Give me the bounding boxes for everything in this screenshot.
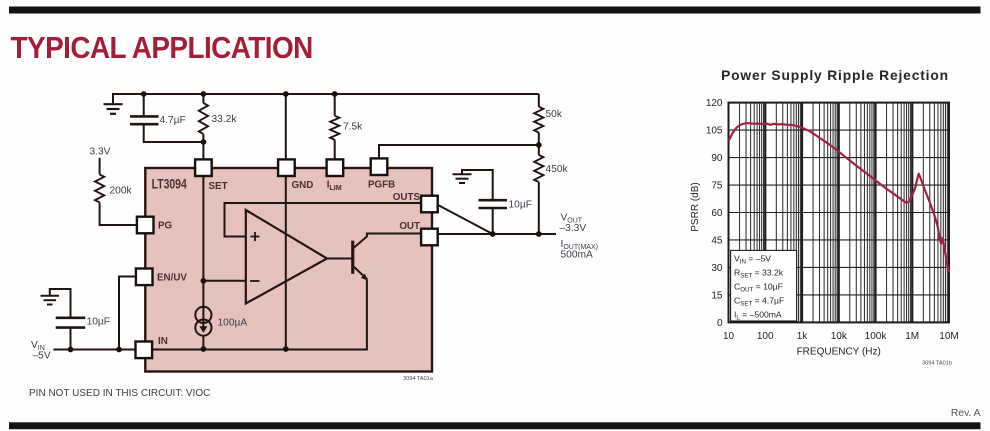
svg-text:SET: SET (209, 181, 228, 192)
svg-text:IN: IN (158, 336, 168, 347)
svg-text:PG: PG (158, 221, 173, 232)
svg-text:15: 15 (711, 290, 723, 301)
svg-text:OUT: OUT (399, 221, 420, 232)
svg-text:10µF: 10µF (87, 317, 110, 328)
svg-text:3094 TA01a: 3094 TA01a (403, 376, 434, 382)
svg-text:10k: 10k (831, 331, 848, 342)
svg-text:90: 90 (711, 153, 723, 164)
svg-text:200k: 200k (110, 186, 133, 197)
svg-text:45: 45 (711, 236, 723, 247)
svg-text:50k: 50k (546, 109, 563, 120)
svg-text:10M: 10M (939, 331, 958, 342)
svg-text:PGFB: PGFB (368, 180, 395, 191)
svg-text:Power Supply Ripple Rejection: Power Supply Ripple Rejection (721, 68, 949, 83)
svg-text:7.5k: 7.5k (343, 122, 363, 133)
svg-text:30: 30 (711, 263, 723, 274)
svg-text:–3.3V: –3.3V (560, 223, 587, 234)
svg-text:100: 100 (757, 331, 774, 342)
svg-text:FREQUENCY (Hz): FREQUENCY (Hz) (797, 347, 881, 358)
svg-text:GND: GND (292, 180, 314, 191)
svg-text:3094 TA01b: 3094 TA01b (922, 361, 952, 367)
svg-text:EN/UV: EN/UV (157, 273, 187, 284)
svg-text:–5V: –5V (33, 351, 51, 362)
svg-text:100µA: 100µA (218, 318, 248, 329)
svg-text:75: 75 (711, 181, 723, 192)
svg-text:120: 120 (706, 98, 723, 109)
svg-text:1k: 1k (797, 331, 809, 342)
svg-text:LT3094: LT3094 (152, 176, 188, 191)
svg-text:OUTS: OUTS (393, 192, 421, 203)
svg-text:33.2k: 33.2k (212, 114, 238, 125)
svg-text:TYPICAL APPLICATION: TYPICAL APPLICATION (11, 30, 313, 65)
svg-text:60: 60 (711, 208, 723, 219)
svg-text:PIN NOT USED IN THIS CIRCUIT:: PIN NOT USED IN THIS CIRCUIT: VIOC (29, 388, 210, 399)
svg-text:4.7µF: 4.7µF (160, 115, 186, 126)
svg-text:100k: 100k (865, 331, 888, 342)
svg-text:1M: 1M (905, 331, 919, 342)
svg-text:Rev. A: Rev. A (951, 408, 981, 419)
svg-text:105: 105 (706, 126, 723, 137)
svg-text:450k: 450k (546, 164, 569, 175)
svg-text:10: 10 (723, 331, 735, 342)
svg-text:3.3V: 3.3V (90, 147, 111, 158)
svg-text:PSRR (dB): PSRR (dB) (690, 182, 701, 231)
svg-text:10µF: 10µF (509, 200, 532, 211)
svg-text:0: 0 (717, 318, 723, 329)
svg-text:500mA: 500mA (561, 250, 593, 261)
